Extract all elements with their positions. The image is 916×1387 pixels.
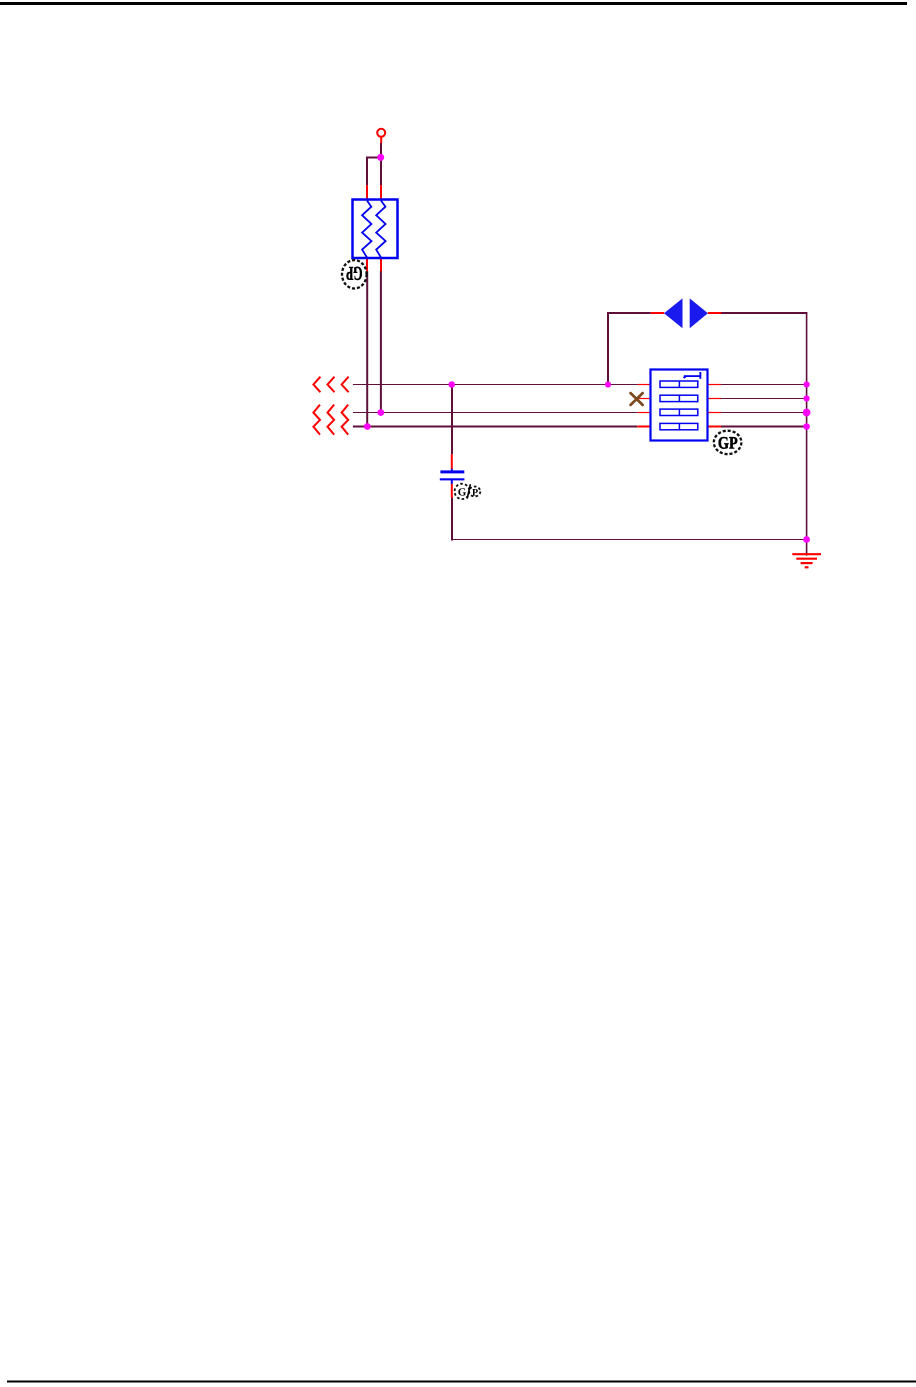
svg-text:GP: GP bbox=[346, 262, 363, 283]
svg-text:GP: GP bbox=[718, 434, 738, 453]
svg-text:P: P bbox=[472, 487, 478, 498]
svg-text:G: G bbox=[458, 487, 467, 499]
